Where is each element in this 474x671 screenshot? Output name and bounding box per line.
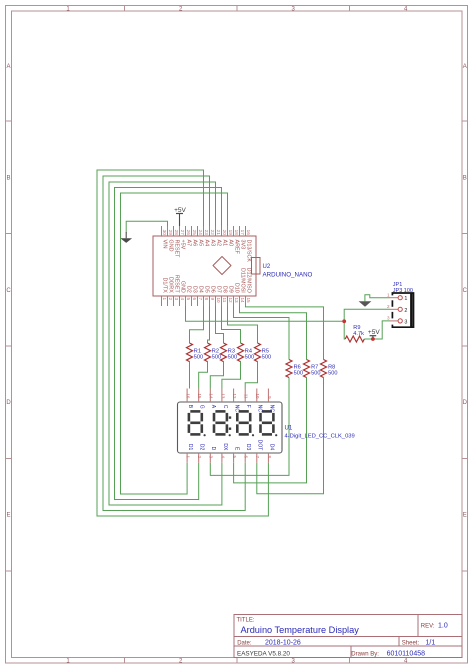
svg-text:500: 500 <box>228 355 237 361</box>
svg-text:4: 4 <box>180 298 185 301</box>
wire D2 to R9/JP1 node <box>186 306 345 321</box>
svg-text:REV:: REV: <box>421 624 435 630</box>
svg-text:12: 12 <box>232 393 237 399</box>
resistor R6 <box>286 360 303 378</box>
frame row letters left <box>6 64 11 519</box>
title block outline <box>234 615 462 658</box>
JP1 pin numbers <box>387 292 390 320</box>
svg-text:D: D <box>463 400 468 406</box>
svg-text:24: 24 <box>198 230 203 236</box>
svg-text:6: 6 <box>244 456 249 459</box>
svg-text:5: 5 <box>186 298 191 301</box>
svg-text:500: 500 <box>311 370 320 376</box>
+5V flag at R9 <box>368 329 380 339</box>
svg-text:RESET: RESET <box>173 275 179 294</box>
svg-text:EASYEDA V5.8.20: EASYEDA V5.8.20 <box>237 650 290 657</box>
U2 usb connector <box>252 258 261 275</box>
U1 digit 4 decimal point <box>275 434 277 436</box>
svg-text:D7: D7 <box>215 286 221 293</box>
wire D9 to R5 <box>228 306 258 343</box>
svg-text:15: 15 <box>246 298 251 304</box>
svg-text:10: 10 <box>216 298 221 304</box>
svg-text:10: 10 <box>255 393 260 399</box>
svg-text:A7: A7 <box>185 240 191 247</box>
svg-text:2: 2 <box>197 456 202 459</box>
wire R1 to display pin16 B <box>189 362 191 389</box>
resistor R8 <box>321 360 338 378</box>
svg-text:D3: D3 <box>191 286 197 293</box>
U2 bottom pin names <box>161 268 251 294</box>
svg-text:D10: D10 <box>233 283 239 293</box>
svg-text:3: 3 <box>209 456 214 459</box>
svg-text:D2: D2 <box>185 286 191 293</box>
U2 top pin numbers 30-16 <box>162 230 251 236</box>
U1 digit 4 <box>261 411 274 434</box>
U2 bottom pin stubs 1-15 <box>162 296 246 306</box>
svg-text:TITLE:: TITLE: <box>237 618 255 624</box>
svg-text:D1/TX: D1/TX <box>161 278 167 294</box>
ground flag near JP1 <box>359 301 372 306</box>
wire D11 to R7 <box>240 306 307 360</box>
U1 digit 3 decimal point <box>252 434 254 436</box>
U1 digit 2 <box>214 411 227 434</box>
U1 bottom pin numbers <box>186 456 272 459</box>
svg-text:D11/MOSI: D11/MOSI <box>239 268 245 293</box>
svg-text:26: 26 <box>186 230 191 236</box>
svg-text:A6: A6 <box>191 240 197 247</box>
svg-text:D4: D4 <box>197 286 203 293</box>
svg-text:1: 1 <box>186 456 191 459</box>
resistor R3 <box>221 343 238 362</box>
svg-text:21: 21 <box>216 230 221 236</box>
resistor R7 <box>304 360 321 378</box>
svg-text:Date:: Date: <box>237 640 252 646</box>
svg-text:22: 22 <box>210 230 215 236</box>
svg-text:16: 16 <box>186 393 191 399</box>
wire JP1 pin2 to R9 <box>344 309 390 339</box>
wire R8 to display pin7 DOT <box>257 378 324 494</box>
U2 top pin names <box>161 240 251 263</box>
svg-text:20: 20 <box>222 230 227 236</box>
JP1 pin stubs <box>390 298 398 321</box>
svg-text:D8: D8 <box>221 286 227 293</box>
resistor R2 <box>205 343 222 362</box>
svg-text:8: 8 <box>267 456 272 459</box>
U1 digit 3 <box>237 411 250 434</box>
svg-text:Sheet:: Sheet: <box>402 640 420 646</box>
junction node D2/R9/JP1.2 <box>342 319 346 323</box>
frame left ticks <box>6 121 12 571</box>
JP1 right bar <box>410 294 412 327</box>
wire R5 to display pin11 F <box>245 362 257 389</box>
connector JP1 body <box>392 293 413 327</box>
wire D10 to R6 <box>234 306 290 360</box>
U1 top pin stubs 16-9 <box>187 389 268 403</box>
svg-text:VIN: VIN <box>161 240 167 249</box>
svg-text:NC: NC <box>234 405 240 413</box>
U1 bottom pin stubs 1-8 <box>187 453 268 463</box>
svg-text:3: 3 <box>387 316 390 321</box>
svg-text:D9: D9 <box>227 286 233 293</box>
svg-text:RESET: RESET <box>173 240 179 259</box>
svg-text:B: B <box>463 176 467 182</box>
svg-text:C: C <box>6 288 11 294</box>
svg-text:D: D <box>210 447 216 451</box>
svg-text:1: 1 <box>387 292 390 297</box>
svg-text:A: A <box>463 64 467 70</box>
svg-text:500: 500 <box>245 355 254 361</box>
svg-text:D12/MISO: D12/MISO <box>245 268 251 293</box>
svg-text:9: 9 <box>267 396 272 399</box>
svg-text:Arduino Temperature Display: Arduino Temperature Display <box>241 625 360 635</box>
svg-text:E: E <box>463 513 467 519</box>
wire R6 to display pin3 D <box>210 378 289 476</box>
svg-text:500: 500 <box>262 355 271 361</box>
svg-text:14: 14 <box>209 393 214 399</box>
svg-text:2018-10-26: 2018-10-26 <box>265 639 301 646</box>
svg-text:C: C <box>463 288 468 294</box>
wire R7 to display pin5 E <box>234 378 307 483</box>
svg-text:9: 9 <box>210 298 215 301</box>
svg-text:C: C <box>222 405 228 409</box>
wire R4 to display pin13 C <box>222 362 241 389</box>
svg-text:23: 23 <box>204 230 209 236</box>
U1 bottom pin names <box>187 440 274 451</box>
svg-text:17: 17 <box>240 230 245 236</box>
svg-text:Drawn By:: Drawn By: <box>351 651 379 657</box>
wire GND net to nano pin 29 <box>126 221 167 232</box>
svg-text:A3: A3 <box>209 240 215 247</box>
svg-text:2: 2 <box>387 304 390 309</box>
svg-text:2: 2 <box>404 308 407 314</box>
svg-text:D5: D5 <box>203 286 209 293</box>
svg-text:F: F <box>245 405 251 408</box>
svg-text:U2: U2 <box>263 264 271 270</box>
svg-text:12: 12 <box>228 298 233 304</box>
svg-text:3V3: 3V3 <box>239 240 245 250</box>
U1 top pin numbers <box>186 393 272 399</box>
svg-text:30: 30 <box>162 230 167 236</box>
svg-text:8: 8 <box>204 298 209 301</box>
svg-text:500: 500 <box>294 370 303 376</box>
U2 top pin stubs 30-16 <box>162 226 246 236</box>
svg-text:A1: A1 <box>221 240 227 247</box>
svg-text:DOT: DOT <box>257 440 263 451</box>
title block drawnby divider <box>350 646 352 658</box>
svg-text:27: 27 <box>180 230 185 236</box>
frame row letters right <box>463 64 468 519</box>
wire D6 to R2 <box>208 306 210 343</box>
resistor R4 <box>238 343 255 362</box>
svg-text:13: 13 <box>234 298 239 304</box>
wire R2 to display pin15 G <box>199 362 208 389</box>
resistor R1 <box>187 343 204 362</box>
junction node R9/+5V/JP1.3 <box>371 337 375 341</box>
svg-text:11: 11 <box>222 298 227 303</box>
svg-text:7: 7 <box>198 298 203 301</box>
+5V flag at nano pin 27 <box>174 207 186 226</box>
wire A2 to display pin4 DX <box>109 182 222 505</box>
U1 colon <box>229 416 231 418</box>
wire A4 to display pin8 D4 <box>97 170 268 516</box>
svg-text:GND: GND <box>179 281 185 293</box>
U1 top pin names <box>187 405 274 413</box>
svg-text:D2: D2 <box>199 444 205 451</box>
svg-text:14: 14 <box>240 298 245 304</box>
svg-text:A0: A0 <box>227 240 233 247</box>
svg-text:+5V: +5V <box>174 207 186 214</box>
svg-text:D: D <box>6 400 11 406</box>
svg-text:AREF: AREF <box>233 240 239 255</box>
svg-text:4-Digit_LED_CC_CLK_039: 4-Digit_LED_CC_CLK_039 <box>285 434 355 440</box>
svg-text:1/1: 1/1 <box>426 639 436 646</box>
svg-text:2: 2 <box>168 298 173 301</box>
svg-text:G: G <box>199 405 205 409</box>
U1 digit 2 decimal point <box>229 434 231 436</box>
svg-text:B: B <box>6 176 10 182</box>
svg-text:4.7k: 4.7k <box>353 331 364 337</box>
svg-text:29: 29 <box>168 230 173 236</box>
svg-text:JP3 100: JP3 100 <box>393 288 413 294</box>
svg-text:GND: GND <box>167 240 173 252</box>
svg-text:E: E <box>6 513 10 519</box>
svg-text:ARDUINO_NANO: ARDUINO_NANO <box>263 272 313 279</box>
svg-text:3: 3 <box>404 319 407 325</box>
arduino nano U2 body <box>153 236 256 296</box>
svg-text:A2: A2 <box>215 240 221 247</box>
svg-text:D0/RX: D0/RX <box>167 277 173 293</box>
frame top ticks <box>125 6 350 12</box>
wire A0 to display pin1 D1 <box>121 193 228 494</box>
svg-text:500: 500 <box>194 355 203 361</box>
wire R9 right to +5V and JP1 pin3 <box>364 321 390 339</box>
JP1 pin circles <box>398 296 402 323</box>
frame bottom ticks <box>125 658 350 664</box>
U2 diamond logo <box>213 257 231 275</box>
svg-text:D6: D6 <box>209 286 215 293</box>
svg-text:18: 18 <box>234 230 239 236</box>
svg-text:3: 3 <box>174 298 179 301</box>
svg-text:A4: A4 <box>203 240 209 247</box>
title block sheet divider <box>398 637 400 647</box>
U1 digit 1 <box>189 411 202 434</box>
svg-text:+5V: +5V <box>179 240 185 250</box>
svg-text:6: 6 <box>192 298 197 301</box>
svg-text:19: 19 <box>228 230 233 236</box>
svg-text:DX: DX <box>222 443 228 451</box>
svg-text:NC: NC <box>268 405 274 413</box>
frame right ticks <box>462 121 468 571</box>
svg-text:NC: NC <box>257 405 263 413</box>
wire D7 to R3 <box>216 306 224 343</box>
svg-text:15: 15 <box>197 393 202 399</box>
svg-text:1: 1 <box>162 298 167 301</box>
svg-text:7: 7 <box>255 456 260 459</box>
svg-text:A5: A5 <box>197 240 203 247</box>
svg-text:D4: D4 <box>268 444 274 451</box>
svg-text:500: 500 <box>212 355 221 361</box>
frame column numbers bottom <box>66 659 408 665</box>
ground flag near nano <box>120 232 132 243</box>
svg-text:D1: D1 <box>187 444 193 451</box>
U1 digit 1 decimal point <box>204 434 206 436</box>
JP1 pin names 1 2 3 <box>404 296 407 325</box>
wire A3 to display pin6 D3 <box>103 176 245 511</box>
svg-text:1.0: 1.0 <box>438 623 448 630</box>
wire JP1 pin1 to ground <box>365 295 390 302</box>
resistor R9 <box>345 325 364 342</box>
wire A1 to display pin2 D2 <box>115 188 222 500</box>
svg-text:5: 5 <box>232 456 237 459</box>
svg-text:4: 4 <box>220 456 225 459</box>
svg-text:D13/SCK: D13/SCK <box>245 240 251 263</box>
svg-text:A: A <box>6 64 10 70</box>
svg-text:16: 16 <box>246 230 251 236</box>
frame column numbers top <box>66 7 408 13</box>
wire R3 to display pin14 A <box>210 362 223 389</box>
resistor R5 <box>255 343 272 362</box>
svg-text:U1: U1 <box>285 426 293 432</box>
wire D8 to R4 <box>222 306 241 343</box>
title block row lines <box>234 636 462 638</box>
svg-text:1: 1 <box>404 296 407 302</box>
svg-text:11: 11 <box>244 394 249 399</box>
svg-text:25: 25 <box>192 230 197 236</box>
display U1 body <box>178 402 283 453</box>
svg-text:13: 13 <box>220 393 225 399</box>
svg-text:6010110458: 6010110458 <box>387 650 426 657</box>
title block rev divider <box>417 615 419 637</box>
U2 bottom pin numbers 1-15 <box>162 298 251 304</box>
svg-text:28: 28 <box>174 230 179 236</box>
svg-text:D3: D3 <box>245 444 251 451</box>
svg-text:500: 500 <box>328 370 337 376</box>
wire D12 to R8 <box>246 306 324 360</box>
wire D5 to R1 <box>190 306 204 343</box>
